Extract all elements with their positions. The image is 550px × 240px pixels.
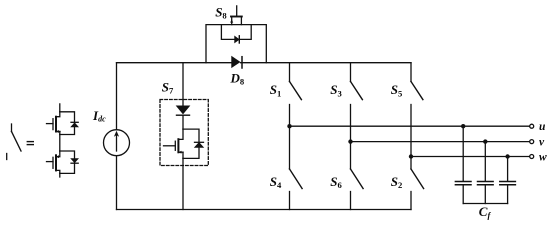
S8 module outer loop [206, 25, 266, 63]
S7 wire (vertical through dashed box) [182, 63, 184, 210]
node dot leg2/v [348, 139, 352, 143]
terminal w [530, 155, 534, 159]
capacitor 2 [478, 142, 494, 204]
svg-text:w: w [539, 152, 547, 164]
S7 dashed box [160, 100, 208, 166]
legend MOSFET lower (transistor with body diode) [47, 151, 75, 177]
terminal v [530, 140, 534, 144]
S7 series diode (points down) [177, 106, 190, 115]
legend ideal switch [7, 124, 21, 160]
terminal u [530, 124, 534, 128]
legend lower body diode (points down) [71, 159, 78, 164]
legend upper body diode (points up) [71, 122, 78, 127]
output wire w [411, 156, 530, 158]
node dot cap1 on u [461, 124, 465, 128]
node dot leg3/w [409, 154, 413, 158]
svg-text:v: v [539, 137, 545, 149]
legend MOSFET upper (transistor with body diode) [47, 104, 75, 135]
legend middle connector wire [59, 135, 61, 152]
equals sign [27, 142, 33, 145]
capacitor common bar wire [463, 203, 507, 205]
S7 MOSFET [164, 129, 184, 158]
node dot cap2 on v [483, 139, 487, 143]
current source Idc [104, 130, 130, 156]
leg 3 wire and switches S5/S2 [411, 63, 424, 210]
S8 body diode loop (points right) [221, 25, 251, 43]
left rail wire [116, 63, 118, 210]
leg 1 wire and switches S1/S4 [290, 63, 303, 210]
leg 2 wire and switches S3/S6 [351, 63, 364, 210]
diode D8 (on top bus, points right) [232, 57, 242, 69]
output wire v [351, 141, 530, 143]
node dot cap3 on w [505, 154, 509, 158]
bottom bus wire [117, 209, 412, 211]
output wire u [290, 125, 530, 127]
S7 body diode branch (points up) [183, 129, 204, 158]
top bus wire [117, 62, 412, 64]
S8 MOSFET [230, 6, 242, 25]
svg-text:u: u [539, 121, 546, 133]
capacitor 3 [500, 157, 516, 204]
capacitor 1 [455, 126, 471, 203]
node dot leg1/u [287, 124, 291, 128]
